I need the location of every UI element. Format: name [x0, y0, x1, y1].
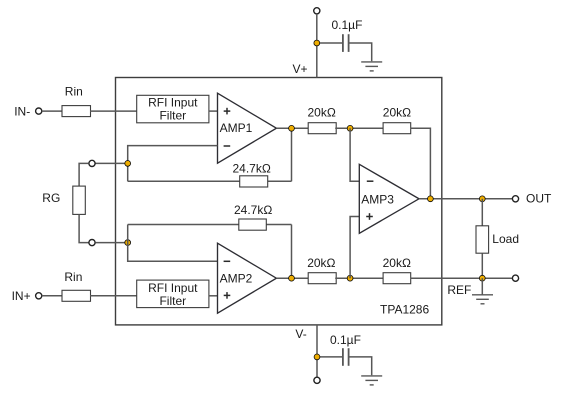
node RG top junction [125, 161, 131, 167]
wire 20k top-left to node A [335, 127, 383, 129]
wire AMP1 output to node [276, 127, 308, 129]
svg-text:REF: REF [447, 283, 471, 297]
capacitor C1 0.1µF [343, 34, 349, 52]
terminal IN- [36, 108, 42, 114]
ground (top) [361, 62, 382, 71]
RFI input filter block 1 [137, 95, 209, 123]
wire AMP3 feedback down [410, 128, 430, 199]
svg-text:Rin: Rin [64, 270, 82, 284]
node AMP1 output junction [289, 125, 295, 131]
terminal V+ [314, 8, 320, 14]
wire V+ vertical [316, 14, 318, 78]
svg-text:Load: Load [492, 232, 519, 246]
resistor 20k (top-left) [308, 123, 336, 134]
op-amp AMP3 [359, 164, 419, 233]
wire AMP2 feedback vertical [291, 225, 293, 279]
terminal RG top [89, 160, 95, 166]
op-amp AMP2 [218, 243, 277, 313]
resistor 20k (bottom-left) [308, 273, 336, 284]
wire IN+ terminal to Rin [42, 295, 62, 297]
ground (REF) [472, 295, 493, 304]
terminal V- [314, 377, 320, 383]
svg-text:RG: RG [42, 191, 60, 205]
wire AMP2 feedback horizontal [128, 224, 292, 226]
node A (AMP3 - junction) [347, 125, 353, 131]
terminal OUT [512, 196, 518, 202]
wire capacitor to ground (bottom) [349, 357, 372, 375]
svg-text:20kΩ: 20kΩ [383, 256, 411, 270]
wire AMP3 output to OUT [419, 198, 512, 200]
svg-text:20kΩ: 20kΩ [308, 106, 336, 120]
svg-text:20kΩ: 20kΩ [383, 106, 411, 120]
svg-text:24.7kΩ: 24.7kΩ [234, 203, 272, 217]
resistor 20k (bottom-right) [383, 273, 411, 284]
wire Rin to RFI filter 1 [90, 110, 137, 112]
op-amp AMP1 [218, 93, 277, 163]
svg-text:20kΩ: 20kΩ [307, 256, 335, 270]
wire RFI filter 1 to AMP1 + input [209, 110, 218, 112]
capacitor C2 0.1µF [343, 348, 349, 366]
svg-text:AMP3: AMP3 [361, 192, 394, 206]
terminal RG bottom [89, 240, 95, 246]
resistor 20k (top-right, AMP3 feedback) [383, 123, 411, 134]
svg-text:0.1µF: 0.1µF [330, 333, 361, 347]
terminal IN+ [36, 293, 42, 299]
svg-text:V-: V- [295, 327, 306, 341]
RFI input filter block 2 [137, 280, 209, 308]
wire 20k bottom-left to node B [335, 277, 383, 279]
wire RG top node to terminal [92, 162, 128, 164]
wire Rin to RFI filter 2 [90, 295, 137, 297]
wire V- vertical [316, 325, 318, 377]
wire RFI filter 2 to AMP2 + input [209, 295, 218, 297]
svg-text:IN-: IN- [14, 104, 30, 118]
wire V+ node to capacitor [317, 42, 343, 44]
svg-text:TPA1286: TPA1286 [380, 303, 429, 317]
resistor Load [476, 226, 489, 253]
wire RG bottom node [95, 242, 127, 244]
pin - (AMP1) [224, 145, 231, 147]
node V- junction [314, 354, 320, 360]
svg-text:Filter: Filter [159, 294, 186, 308]
node REF junction [479, 275, 485, 281]
wire AMP1 feedback horizontal [128, 180, 292, 182]
wire RG resistor to bottom terminal [79, 214, 89, 242]
resistor Rin (lower) [62, 290, 91, 301]
wire capacitor to ground (top) [349, 43, 372, 61]
pin + (AMP3) [366, 213, 373, 220]
wire Load bottom [481, 253, 483, 278]
pin - (AMP2) [224, 260, 231, 262]
wire AMP1 - input from RG node [128, 146, 218, 164]
pin + (AMP2) [224, 292, 231, 299]
wire RG terminal top to resistor [79, 163, 89, 186]
node V+ junction [314, 40, 320, 46]
node B (AMP3 + junction) [347, 275, 353, 281]
IC boundary box TPA1286 [116, 78, 442, 325]
resistor Rin (upper) [62, 106, 91, 117]
resistor RG [73, 186, 86, 214]
svg-text:0.1µF: 0.1µF [332, 18, 363, 32]
wire AMP2 - input from RG node [128, 243, 218, 262]
wire RG bottom stub up to AMP2 feedback [127, 225, 129, 243]
pin + (AMP1) [224, 108, 231, 115]
svg-text:OUT: OUT [526, 192, 552, 206]
resistor 24.7k (upper) [240, 176, 268, 187]
wire RG top stub down [127, 163, 129, 181]
wire IN- terminal to Rin [42, 110, 62, 112]
svg-text:IN+: IN+ [12, 289, 31, 303]
pin - (AMP3) [367, 180, 374, 182]
wire REF node to ground [481, 278, 483, 294]
wire node A to AMP3 - input [350, 128, 359, 181]
resistor 24.7k (lower) [239, 219, 266, 230]
svg-text:Filter: Filter [159, 108, 186, 122]
svg-text:Rin: Rin [65, 84, 83, 98]
wire AMP2 output to node row [276, 277, 308, 279]
wire Load top [481, 199, 483, 226]
node AMP2 output junction [289, 275, 295, 281]
node OUT Load junction [479, 196, 485, 202]
svg-text:AMP1: AMP1 [220, 121, 253, 135]
svg-text:V+: V+ [293, 62, 308, 76]
ground (bottom) [361, 376, 382, 385]
node RG bottom junction [125, 240, 131, 246]
terminal REF [512, 275, 518, 281]
wire AMP1 feedback vertical [291, 128, 293, 181]
svg-text:24.7kΩ: 24.7kΩ [233, 161, 271, 175]
wire REF line (20k to REF terminal) [410, 277, 512, 279]
wire V- node to capacitor [317, 356, 342, 358]
svg-text:AMP2: AMP2 [220, 272, 253, 286]
node AMP3 output junction [428, 196, 434, 202]
wire node B to AMP3 + input [350, 217, 359, 279]
